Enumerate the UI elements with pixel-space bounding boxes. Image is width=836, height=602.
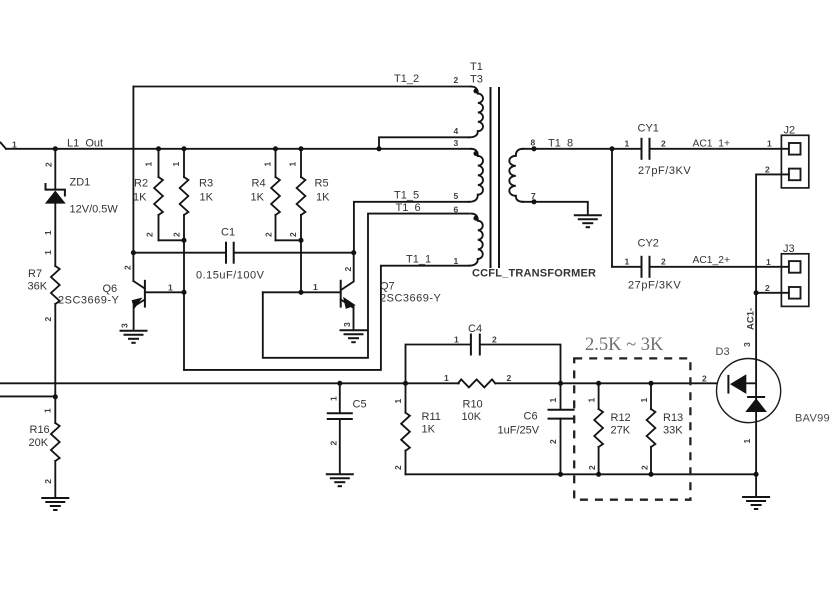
svg-text:Q7: Q7 bbox=[380, 281, 395, 293]
transformer T1 core bbox=[491, 87, 500, 268]
resistor R10 (inline) bbox=[444, 373, 512, 423]
svg-text:20K: 20K bbox=[29, 437, 49, 449]
svg-text:27pF/3KV: 27pF/3KV bbox=[638, 165, 691, 177]
svg-text:2: 2 bbox=[661, 138, 666, 148]
svg-text:2SC3669-Y: 2SC3669-Y bbox=[380, 293, 442, 305]
connector J3 bbox=[765, 243, 809, 306]
svg-text:R5: R5 bbox=[315, 178, 329, 190]
svg-text:1: 1 bbox=[625, 138, 630, 148]
resistor R7 bbox=[28, 250, 60, 397]
wire J2 pin2 to AC1- vertical bbox=[756, 174, 789, 292]
svg-text:1: 1 bbox=[288, 162, 298, 167]
svg-text:R2: R2 bbox=[134, 178, 148, 190]
node junction L1/ZD1 bbox=[53, 146, 58, 151]
svg-text:J3: J3 bbox=[783, 243, 795, 255]
node junction R13 top bbox=[648, 381, 653, 386]
wire R3-bottom down to Q6 base and link row bbox=[183, 240, 185, 370]
wire D3 to ground bbox=[755, 474, 757, 496]
zener ZD1 bbox=[43, 149, 119, 266]
node junction C1 left / Q6 collector bbox=[131, 250, 136, 255]
svg-text:1: 1 bbox=[329, 396, 339, 401]
capacitor C1 bbox=[133, 227, 353, 282]
resistor R4 bbox=[251, 149, 280, 241]
svg-text:AC1_1+: AC1_1+ bbox=[693, 138, 731, 149]
svg-text:2: 2 bbox=[145, 232, 155, 237]
resistor R3 bbox=[171, 149, 214, 241]
svg-text:8: 8 bbox=[531, 137, 536, 147]
svg-text:1: 1 bbox=[625, 256, 630, 266]
ground below Q7 bbox=[340, 330, 368, 342]
wire L1_Out input tick bbox=[1, 143, 7, 149]
node junction R5 top bbox=[298, 146, 303, 151]
capacitor C5 bbox=[327, 383, 367, 474]
svg-text:1: 1 bbox=[639, 398, 649, 403]
wire J3 pin2 bbox=[756, 292, 789, 294]
wire T1_5 row bbox=[354, 202, 469, 253]
svg-text:C5: C5 bbox=[353, 399, 367, 411]
wire bottom rail (lower) bbox=[406, 473, 757, 475]
resistor R13 bbox=[639, 383, 683, 474]
svg-text:12V/0.5W: 12V/0.5W bbox=[70, 204, 119, 216]
wire CY column vertical bbox=[611, 149, 613, 267]
svg-text:2: 2 bbox=[44, 162, 54, 167]
ground below C5 bbox=[326, 474, 354, 486]
wire main bottom rail bbox=[0, 382, 459, 384]
node junction L1/pin4-jog bbox=[376, 146, 381, 151]
svg-text:1: 1 bbox=[43, 250, 53, 255]
svg-text:BAV99: BAV99 bbox=[795, 413, 830, 425]
svg-text:27K: 27K bbox=[611, 425, 631, 437]
svg-text:1: 1 bbox=[454, 335, 459, 345]
transformer T1 primary winding section 1 (pins 2-4) bbox=[469, 87, 483, 138]
svg-text:3: 3 bbox=[120, 323, 130, 328]
wire Q6 base bbox=[145, 291, 184, 293]
svg-text:2: 2 bbox=[43, 479, 53, 484]
capacitor CY2 bbox=[612, 238, 789, 292]
resistor R5 bbox=[288, 149, 331, 241]
svg-text:1: 1 bbox=[548, 398, 558, 403]
svg-text:2: 2 bbox=[264, 232, 274, 237]
wire T1_2 row bbox=[133, 86, 471, 88]
svg-text:2: 2 bbox=[765, 283, 770, 293]
transistor Q6 bbox=[58, 265, 173, 331]
node junction T1_8 / CY column bbox=[609, 146, 614, 151]
svg-text:1: 1 bbox=[587, 398, 597, 403]
svg-text:2: 2 bbox=[587, 465, 597, 470]
resistor R11 bbox=[393, 383, 441, 474]
svg-text:2SC3669-Y: 2SC3669-Y bbox=[58, 295, 120, 307]
capacitor C6 bbox=[498, 383, 575, 474]
svg-text:2: 2 bbox=[765, 165, 770, 175]
svg-text:CY1: CY1 bbox=[638, 123, 659, 135]
svg-text:1K: 1K bbox=[133, 192, 147, 204]
svg-text:ZD1: ZD1 bbox=[70, 177, 91, 189]
svg-text:4: 4 bbox=[454, 126, 459, 136]
svg-text:1: 1 bbox=[454, 256, 459, 266]
svg-text:3: 3 bbox=[742, 342, 752, 347]
svg-text:1K: 1K bbox=[422, 424, 436, 436]
svg-text:CCFL_TRANSFORMER: CCFL_TRANSFORMER bbox=[472, 268, 596, 280]
ground below Q6 bbox=[120, 331, 148, 343]
svg-text:T3: T3 bbox=[470, 74, 483, 86]
svg-text:R16: R16 bbox=[30, 424, 50, 436]
svg-text:Q6: Q6 bbox=[103, 283, 118, 295]
svg-text:D3: D3 bbox=[716, 346, 730, 358]
wire T1 pin 8 row bbox=[522, 148, 612, 150]
svg-text:1: 1 bbox=[168, 283, 173, 293]
svg-text:3: 3 bbox=[454, 138, 459, 148]
svg-text:3: 3 bbox=[342, 322, 352, 327]
node phase dot section3 bbox=[473, 216, 478, 221]
node pin7 dot bbox=[531, 199, 536, 204]
node junction R3 top bbox=[181, 146, 186, 151]
transformer T1 primary winding section 2 (pins 3-5) bbox=[469, 149, 483, 202]
svg-text:R7: R7 bbox=[28, 268, 42, 280]
svg-text:0.15uF/100V: 0.15uF/100V bbox=[196, 270, 265, 282]
svg-text:1uF/25V: 1uF/25V bbox=[498, 425, 540, 437]
svg-text:J2: J2 bbox=[784, 125, 796, 137]
svg-text:7: 7 bbox=[531, 191, 536, 201]
svg-text:2: 2 bbox=[492, 335, 497, 345]
svg-text:C6: C6 bbox=[524, 411, 538, 423]
resistor R16 bbox=[29, 397, 60, 498]
svg-text:27pF/3KV: 27pF/3KV bbox=[628, 280, 681, 292]
svg-text:1: 1 bbox=[43, 408, 53, 413]
svg-text:T1_6: T1_6 bbox=[396, 202, 421, 214]
node junction D3 bottom rail bbox=[754, 472, 759, 477]
transformer T1 secondary winding (pins 8-7) bbox=[509, 149, 523, 202]
svg-text:2: 2 bbox=[661, 256, 666, 266]
node junction R11/C4 left bbox=[403, 381, 408, 386]
wire R2-R3 bottom bar bbox=[159, 239, 185, 241]
svg-text:1: 1 bbox=[144, 162, 154, 167]
diode D3 BAV99 bbox=[702, 346, 830, 425]
svg-text:1: 1 bbox=[313, 282, 318, 292]
svg-text:2: 2 bbox=[329, 441, 339, 446]
node junction J3 pin2 / AC1- bbox=[754, 290, 759, 295]
svg-text:T1_1: T1_1 bbox=[406, 254, 431, 266]
wire rail right of R10 bbox=[495, 382, 716, 384]
node junction Q7 base / R5 drop bbox=[298, 290, 303, 295]
svg-text:2: 2 bbox=[172, 232, 182, 237]
svg-text:2.5K ~ 3K: 2.5K ~ 3K bbox=[585, 335, 664, 355]
ground at T1 pin 7 bbox=[574, 215, 602, 227]
svg-text:AC1-: AC1- bbox=[746, 308, 757, 330]
capacitor C4 bbox=[406, 323, 561, 383]
wire T1 pin 7 to ground bbox=[522, 202, 588, 215]
node junction Q6 base bbox=[181, 290, 186, 295]
svg-text:2: 2 bbox=[393, 465, 403, 470]
resistor R2 bbox=[133, 149, 163, 241]
svg-text:T1_8: T1_8 bbox=[548, 137, 573, 149]
svg-text:2: 2 bbox=[702, 373, 707, 383]
node junction C6 bottom bbox=[558, 472, 563, 477]
svg-text:2: 2 bbox=[288, 232, 298, 237]
svg-text:2: 2 bbox=[454, 75, 459, 85]
node junction R12 top bbox=[596, 381, 601, 386]
svg-text:10K: 10K bbox=[462, 411, 482, 423]
svg-text:R4: R4 bbox=[252, 178, 266, 190]
svg-text:6: 6 bbox=[454, 205, 459, 215]
svg-text:2: 2 bbox=[123, 265, 133, 270]
wire Q6 collector vertical bbox=[132, 87, 134, 282]
connector J2 bbox=[765, 125, 809, 188]
svg-text:AC1_2+: AC1_2+ bbox=[693, 255, 731, 266]
node junction C4/C6 bbox=[558, 381, 563, 386]
svg-text:R11: R11 bbox=[422, 411, 441, 423]
wire jog to T1 pin 4 bbox=[379, 137, 469, 149]
svg-text:1: 1 bbox=[171, 162, 181, 167]
svg-text:1: 1 bbox=[766, 257, 771, 267]
ground below D3 bbox=[742, 497, 770, 509]
svg-text:1K: 1K bbox=[316, 192, 330, 204]
svg-text:2: 2 bbox=[640, 465, 650, 470]
wire link Q6-base to T1_1 bbox=[184, 266, 469, 370]
transformer T1 primary winding section 3 (pins 6-1) bbox=[469, 214, 483, 266]
node junction R3 bottom bbox=[181, 238, 186, 243]
wire Q7 base row bbox=[263, 291, 341, 293]
svg-text:L1_Out: L1_Out bbox=[67, 138, 103, 150]
node phase dot section1 bbox=[473, 88, 478, 93]
svg-text:1K: 1K bbox=[200, 192, 214, 204]
svg-text:2: 2 bbox=[548, 439, 558, 444]
svg-text:1: 1 bbox=[767, 139, 772, 149]
node phase dot section2 bbox=[473, 151, 478, 156]
resistor R12 bbox=[587, 383, 631, 474]
wire Q7 base box loop to T1_6 bbox=[263, 214, 469, 358]
wire L1_Out rail bbox=[6, 148, 471, 150]
svg-text:T1_2: T1_2 bbox=[394, 73, 419, 85]
node junction R13 bottom bbox=[648, 472, 653, 477]
svg-text:C4: C4 bbox=[468, 323, 482, 335]
svg-text:1: 1 bbox=[742, 439, 752, 444]
ground below R16 bbox=[41, 498, 69, 510]
node pin8 dot bbox=[531, 146, 536, 151]
svg-text:1: 1 bbox=[263, 162, 273, 167]
svg-text:T1: T1 bbox=[470, 61, 483, 73]
dashed selection box around R12/R13 bbox=[574, 358, 690, 499]
wire bottom-left stub input bbox=[0, 395, 55, 397]
svg-text:2: 2 bbox=[343, 267, 353, 272]
node junction R12 bottom bbox=[596, 472, 601, 477]
svg-text:1: 1 bbox=[43, 230, 53, 235]
svg-text:2: 2 bbox=[507, 373, 512, 383]
node junction R2 top bbox=[156, 146, 161, 151]
wire AC1- vertical to D3 pin 3 bbox=[755, 293, 757, 475]
svg-text:1: 1 bbox=[393, 399, 403, 404]
svg-text:R3: R3 bbox=[199, 178, 213, 190]
svg-text:R10: R10 bbox=[463, 399, 483, 411]
svg-text:CY2: CY2 bbox=[638, 238, 659, 250]
svg-text:T1_5: T1_5 bbox=[394, 190, 419, 202]
node junction R7/R16/stub bbox=[53, 394, 58, 399]
svg-text:R13: R13 bbox=[663, 412, 683, 424]
svg-text:33K: 33K bbox=[663, 425, 683, 437]
node junction R5 bottom bbox=[298, 238, 303, 243]
node junction R4 top bbox=[273, 146, 278, 151]
svg-text:1: 1 bbox=[444, 373, 449, 383]
svg-text:2: 2 bbox=[43, 317, 53, 322]
capacitor CY1 bbox=[612, 123, 789, 178]
svg-text:1K: 1K bbox=[251, 192, 265, 204]
wire R5-bottom down to Q7 base row bbox=[300, 240, 302, 292]
node junction C5 bbox=[337, 381, 342, 386]
transistor Q7 bbox=[313, 253, 442, 331]
node junction C1 right / Q7 collector / T1_5 bbox=[351, 250, 356, 255]
svg-text:C1: C1 bbox=[221, 227, 235, 239]
wire R4-R5 bottom bar bbox=[276, 239, 302, 241]
svg-text:R12: R12 bbox=[611, 412, 631, 424]
svg-text:5: 5 bbox=[454, 191, 459, 201]
svg-text:36K: 36K bbox=[28, 281, 48, 293]
